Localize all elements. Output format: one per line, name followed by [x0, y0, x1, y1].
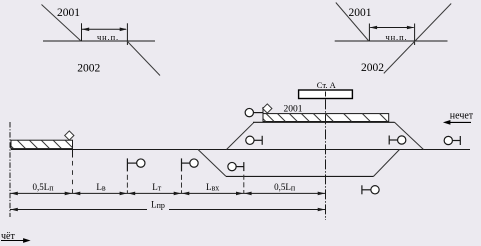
svg-text:Lт: Lт	[152, 182, 162, 192]
switch 2002 diagonal TL	[127, 41, 160, 76]
tick left TR	[368, 24, 370, 42]
signal 7 (main far right)	[444, 136, 460, 145]
signal 8 (track 2 right, below)	[362, 185, 379, 194]
signal 4 (main, left of siding)	[246, 136, 262, 145]
wire baseline TL	[43, 40, 155, 42]
svg-text:чн.п.: чн.п.	[97, 32, 119, 42]
main track	[11, 149, 470, 151]
left platform (hatched)	[5, 140, 73, 148]
svg-text:2002: 2002	[77, 63, 100, 75]
dashed projection lines to dimension line	[72, 161, 74, 193]
tick right TL	[126, 23, 128, 45]
wire baseline TR	[335, 40, 448, 42]
svg-text:2001: 2001	[57, 7, 80, 19]
dimension chain line	[10, 192, 326, 194]
turnout right-up from track 2	[374, 150, 400, 177]
tick right TR	[414, 24, 416, 46]
station building box	[299, 90, 353, 99]
station axis dash inside box	[325, 92, 327, 97]
signal 5 (siding, at platform)	[245, 108, 263, 116]
siding track (upper)	[253, 121, 395, 123]
diamond marker on main platform	[263, 104, 272, 113]
station axis dash-dot line	[325, 99, 327, 220]
svg-text:2001: 2001	[284, 105, 303, 115]
platform left edge post	[262, 107, 264, 122]
diamond marker on left platform	[65, 131, 74, 140]
svg-text:0,5Lп: 0,5Lп	[32, 182, 54, 192]
switch 2001 diagonal TL	[42, 5, 82, 42]
signal 1 (even, main track)	[127, 158, 145, 171]
track 2 (lower)	[226, 175, 374, 177]
svg-text:Lв: Lв	[96, 182, 106, 192]
svg-text:нечет: нечет	[450, 110, 474, 121]
dimension arrow TR	[370, 27, 414, 29]
signal 3 (track 2 left)	[228, 162, 244, 171]
main platform (hatched) on siding	[258, 114, 389, 122]
dimension arrowheads chain	[11, 192, 326, 196]
signal 6 (siding right)	[389, 136, 406, 145]
dimension arrow TL	[82, 28, 126, 30]
switch 2001 diagonal TR	[336, 3, 369, 42]
left boundary dash-dot line	[9, 122, 11, 217]
svg-text:Ст. А: Ст. А	[317, 80, 337, 90]
svg-text:2002: 2002	[361, 62, 384, 74]
svg-text:Lвх: Lвх	[206, 182, 219, 192]
svg-text:чн.п.: чн.п.	[385, 32, 407, 42]
turnout left-down to track 2	[198, 150, 226, 177]
turnout right-down from siding	[395, 122, 424, 149]
svg-text:2001: 2001	[349, 7, 372, 19]
switch 2002 diagonal TR (crosses the line)	[384, 4, 451, 74]
overall length dimension Lпр	[10, 209, 326, 211]
tick left TL	[81, 23, 83, 41]
svg-text:0,5Lп: 0,5Lп	[274, 182, 296, 192]
svg-text:Lпр: Lпр	[151, 200, 165, 210]
turnout left-up to siding	[227, 122, 255, 149]
signal 2 (even, main track)	[182, 158, 199, 171]
tick below left platform right end	[72, 149, 74, 158]
